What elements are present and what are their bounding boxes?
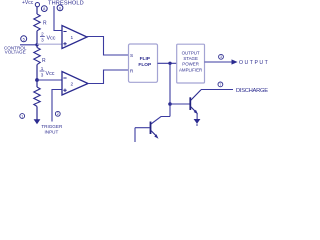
svg-text:+Vcc: +Vcc <box>22 0 34 6</box>
svg-text:FLOP: FLOP <box>138 62 152 68</box>
label OUTPUT STAGE POWER AMPLIFIER <box>179 51 202 73</box>
svg-text:VOLTAGE: VOLTAGE <box>5 49 26 54</box>
svg-text:1: 1 <box>21 114 23 118</box>
svg-text:OUTPUT: OUTPUT <box>239 60 269 66</box>
wire R3 to ground <box>36 106 38 119</box>
svg-text:POWER: POWER <box>182 62 199 67</box>
transistor Q2 <box>151 122 159 139</box>
svg-text:2: 2 <box>41 31 44 36</box>
op-amp U2 comparator <box>62 72 88 96</box>
wire R1 to node A <box>36 31 38 45</box>
pin 7 bubble <box>218 82 223 87</box>
wire control voltage <box>20 44 37 46</box>
wire J2 to Q1 base <box>170 103 190 105</box>
wire 1/3 Vcc to comparator 2 minus <box>37 79 62 81</box>
ground below Q1 emitter <box>194 114 201 127</box>
svg-text:R: R <box>43 20 47 26</box>
wire flip-flop output to output stage <box>158 62 177 64</box>
svg-text:OUTPUT: OUTPUT <box>182 51 200 56</box>
transistor Q1 discharge <box>190 90 201 114</box>
wire node B to R3 <box>36 80 38 87</box>
wire 2/3 Vcc to comparator 1 plus <box>37 43 62 45</box>
svg-text:THRESHOLD: THRESHOLD <box>48 1 84 7</box>
label TRIGGER INPUT <box>41 124 63 134</box>
wire discharge <box>201 89 233 91</box>
svg-text:TRIGGER: TRIGGER <box>41 124 63 129</box>
pin 8 bubble <box>41 6 47 12</box>
wire R2 to node B <box>36 65 38 80</box>
op-amp U1 comparator <box>62 26 87 49</box>
pin 2 bubble <box>55 111 60 116</box>
junction J2 <box>168 102 172 106</box>
svg-text:DISCHARGE: DISCHARGE <box>236 88 268 94</box>
svg-text:2: 2 <box>71 81 74 87</box>
svg-text:S: S <box>130 53 133 59</box>
terminal Vcc <box>35 3 39 7</box>
resistor R1 <box>34 14 40 31</box>
label 1/3 Vcc <box>40 66 55 77</box>
label FLIP FLOP <box>138 56 152 68</box>
svg-text:Vcc: Vcc <box>47 36 56 42</box>
junction J1 <box>168 62 171 65</box>
svg-text:3: 3 <box>41 38 44 43</box>
resistor R3 <box>34 87 40 106</box>
svg-text:INPUT: INPUT <box>45 130 59 135</box>
flip-flop box U3 <box>129 44 158 82</box>
pin 6 bubble <box>57 5 63 11</box>
wire U1 output to flip-flop S <box>87 37 129 56</box>
wire Vcc down to R1 <box>36 7 38 14</box>
wire node A to R2 <box>36 45 38 48</box>
wire threshold to comparator 1 minus <box>54 6 62 31</box>
resistor R2 <box>34 48 40 65</box>
node B junction <box>35 78 39 82</box>
svg-text:FLIP: FLIP <box>140 56 151 62</box>
svg-text:R: R <box>42 58 46 64</box>
output stage box U4 <box>177 44 205 83</box>
pin 1 bubble <box>20 114 25 119</box>
wire Q2 base down off-page <box>134 128 136 143</box>
svg-text:1: 1 <box>41 66 44 71</box>
node A junction <box>35 43 38 46</box>
svg-text:AMPLIFIER: AMPLIFIER <box>179 67 202 72</box>
svg-text:3: 3 <box>220 55 222 59</box>
wire trigger to comparator 2 plus <box>52 90 62 122</box>
pin 5 bubble <box>21 36 27 42</box>
wire output with arrow <box>205 61 233 63</box>
svg-text:2: 2 <box>57 112 59 116</box>
svg-text:7: 7 <box>219 83 221 87</box>
svg-text:R: R <box>130 68 134 74</box>
svg-text:Vcc: Vcc <box>46 71 55 77</box>
svg-text:STAGE: STAGE <box>183 56 198 61</box>
wire Q2 base <box>135 127 150 129</box>
wire to Q2 collector <box>151 117 170 125</box>
wire U2 output to flip-flop R <box>88 70 129 84</box>
svg-text:3: 3 <box>41 72 44 77</box>
label 2/3 Vcc <box>40 31 56 42</box>
ground arrow below R3 <box>34 119 41 124</box>
svg-text:1: 1 <box>71 35 74 41</box>
label CONTROL VOLTAGE <box>4 45 27 54</box>
pin 3 bubble <box>219 54 224 59</box>
wire J1 down to transistors <box>169 63 171 116</box>
